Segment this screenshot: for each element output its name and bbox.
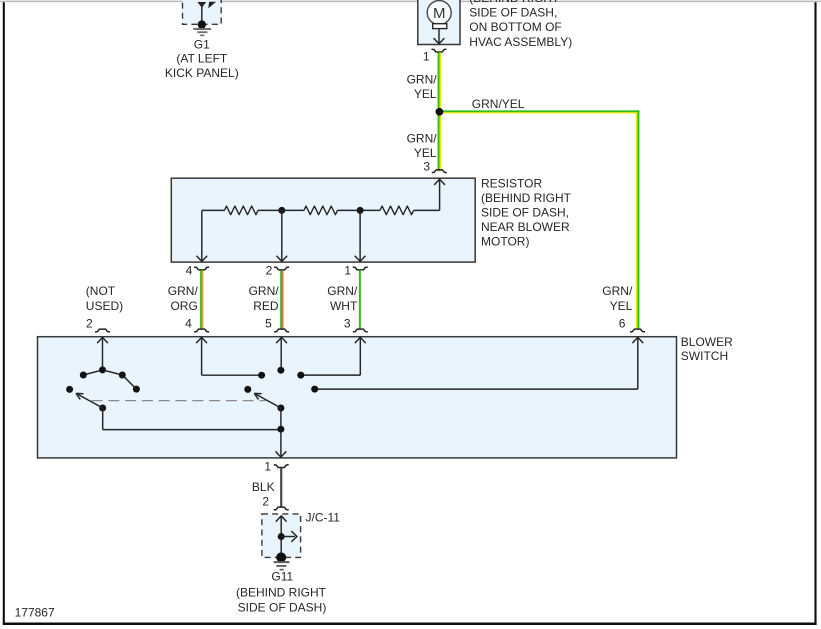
svg-text:KICK PANEL): KICK PANEL) xyxy=(165,66,239,80)
svg-text:(BEHIND RIGHT: (BEHIND RIGHT xyxy=(469,0,560,5)
svg-text:(BEHIND RIGHT: (BEHIND RIGHT xyxy=(481,191,572,205)
svg-text:1: 1 xyxy=(264,459,271,473)
svg-text:4: 4 xyxy=(186,264,193,278)
svg-text:GRN/: GRN/ xyxy=(249,284,280,298)
svg-text:USED): USED) xyxy=(86,299,123,313)
svg-text:2: 2 xyxy=(266,264,273,278)
svg-text:WHT: WHT xyxy=(330,299,358,313)
svg-text:ON BOTTOM OF: ON BOTTOM OF xyxy=(469,20,561,34)
svg-text:BLOWER: BLOWER xyxy=(681,335,733,349)
svg-text:RED: RED xyxy=(253,299,279,313)
svg-text:SIDE OF DASH,: SIDE OF DASH, xyxy=(469,6,557,20)
svg-text:GRN/: GRN/ xyxy=(602,284,633,298)
svg-text:1: 1 xyxy=(344,264,351,278)
svg-text:(NOT: (NOT xyxy=(86,284,116,298)
svg-text:1: 1 xyxy=(423,49,430,63)
svg-text:3: 3 xyxy=(344,317,351,331)
svg-text:M: M xyxy=(433,5,446,22)
svg-text:6: 6 xyxy=(619,317,626,331)
svg-text:YEL: YEL xyxy=(414,146,437,160)
svg-text:(AT LEFT: (AT LEFT xyxy=(176,52,228,66)
svg-text:GRN/: GRN/ xyxy=(327,284,358,298)
svg-text:NEAR BLOWER: NEAR BLOWER xyxy=(481,220,570,234)
svg-text:177867: 177867 xyxy=(15,606,55,620)
svg-text:ORG: ORG xyxy=(170,299,197,313)
svg-text:GRN/YEL: GRN/YEL xyxy=(472,97,525,111)
svg-text:2: 2 xyxy=(262,494,269,508)
svg-text:GRN/: GRN/ xyxy=(407,131,438,145)
svg-text:BLK: BLK xyxy=(252,480,275,494)
svg-text:SWITCH: SWITCH xyxy=(681,349,728,363)
svg-text:GRN/: GRN/ xyxy=(168,284,199,298)
svg-text:G1: G1 xyxy=(194,38,210,52)
svg-text:(BEHIND RIGHT: (BEHIND RIGHT xyxy=(236,586,327,600)
svg-text:4: 4 xyxy=(185,317,192,331)
svg-text:MOTOR): MOTOR) xyxy=(481,234,529,248)
svg-text:GRN/: GRN/ xyxy=(407,72,438,86)
svg-text:5: 5 xyxy=(265,317,272,331)
svg-text:G11: G11 xyxy=(271,569,293,583)
svg-text:YEL: YEL xyxy=(610,299,633,313)
svg-text:SIDE OF DASH): SIDE OF DASH) xyxy=(238,601,327,615)
svg-text:HVAC ASSEMBLY): HVAC ASSEMBLY) xyxy=(469,35,572,49)
svg-text:2: 2 xyxy=(86,317,93,331)
svg-text:3: 3 xyxy=(423,160,430,174)
svg-text:RESISTOR: RESISTOR xyxy=(481,177,542,191)
svg-text:J/C-11: J/C-11 xyxy=(306,511,341,525)
svg-text:YEL: YEL xyxy=(414,87,437,101)
svg-text:SIDE OF DASH,: SIDE OF DASH, xyxy=(481,206,569,220)
